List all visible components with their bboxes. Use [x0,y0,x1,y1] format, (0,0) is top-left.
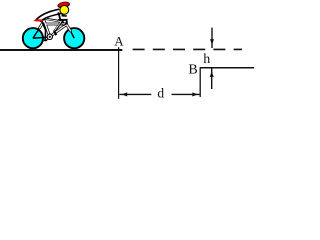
bicycle frame tubes [40,21,71,37]
h dimension top arrow [210,28,214,48]
head tube and stem [66,20,69,24]
rider torso [35,9,61,22]
lower ground line [200,67,254,69]
crank arm [47,37,50,40]
front wheel [64,28,84,48]
rider far arm [62,15,67,17]
rider near arm [58,12,60,19]
rider head [60,5,69,14]
crank / chainring [47,34,52,39]
lower corner vertical [199,67,201,97]
svg-text:h: h [203,52,210,67]
upper ground line [0,49,122,51]
dashed trajectory line [133,48,242,50]
svg-text:A: A [114,34,124,49]
rear wheel [23,28,43,48]
chain stay (rear hub to crank) [33,37,50,38]
svg-text:d: d [157,85,164,100]
seat stay inside rear wheel [33,28,40,39]
d dimension left arrow [119,92,151,96]
rider far leg [42,21,48,41]
helmet [57,1,71,9]
neck [61,14,64,16]
saddle (red seat) [33,19,43,21]
fork inside front wheel [70,31,74,39]
handlebar [58,20,67,26]
extension line below A [118,47,120,99]
svg-text:B: B [188,63,197,78]
h dimension bottom arrow [210,68,214,89]
rider near leg [44,19,62,36]
d dimension right arrow [172,92,200,96]
